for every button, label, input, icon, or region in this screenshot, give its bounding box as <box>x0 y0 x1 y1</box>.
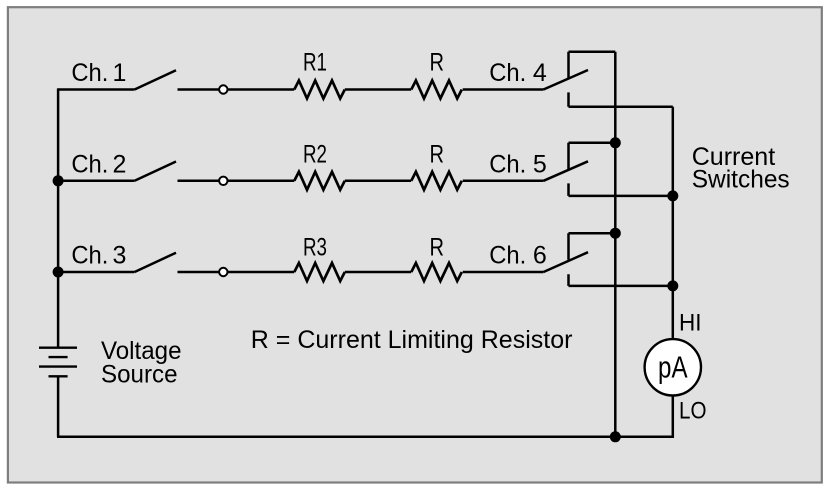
svg-text:R: R <box>430 49 445 77</box>
svg-text:4: 4 <box>533 59 547 87</box>
svg-text:Ch.: Ch. <box>489 151 526 179</box>
svg-text:Ch.: Ch. <box>71 242 108 270</box>
svg-text:R2: R2 <box>303 140 327 168</box>
svg-text:5: 5 <box>533 151 547 179</box>
svg-text:R = Current Limiting Resistor: R = Current Limiting Resistor <box>251 326 573 354</box>
svg-text:HI: HI <box>679 309 702 336</box>
svg-text:R3: R3 <box>303 234 327 262</box>
svg-text:2: 2 <box>112 151 126 179</box>
svg-text:Ch.: Ch. <box>489 59 526 87</box>
svg-text:Ch.: Ch. <box>71 151 108 179</box>
svg-text:6: 6 <box>533 242 547 270</box>
svg-text:R: R <box>430 234 445 262</box>
svg-text:LO: LO <box>679 398 707 425</box>
svg-text:Switches: Switches <box>692 166 790 194</box>
svg-text:Ch.: Ch. <box>71 59 108 87</box>
svg-text:pA: pA <box>658 349 688 384</box>
svg-text:Source: Source <box>101 361 178 389</box>
svg-text:1: 1 <box>112 59 126 87</box>
svg-text:R: R <box>430 140 445 168</box>
svg-text:R1: R1 <box>303 49 327 77</box>
svg-text:Ch.: Ch. <box>489 242 526 270</box>
svg-text:3: 3 <box>112 242 126 270</box>
